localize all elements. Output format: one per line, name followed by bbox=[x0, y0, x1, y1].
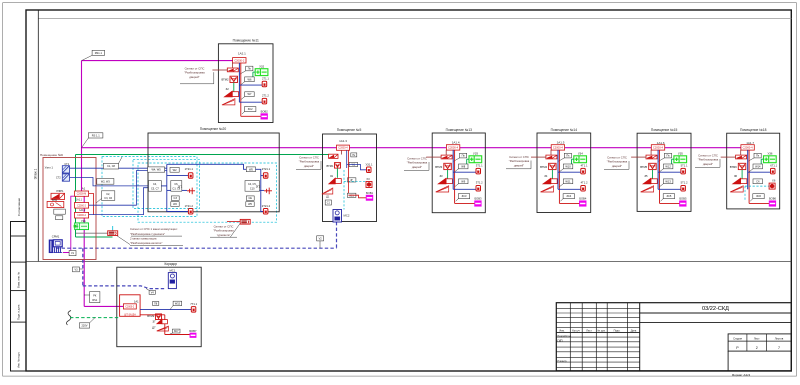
svg-text:ВТМ3: ВТМ3 bbox=[435, 165, 442, 169]
loop bus Помещение №14 purple bbox=[557, 150, 559, 189]
svg-text:RS 1.1: RS 1.1 bbox=[92, 133, 100, 137]
tag V3 on LAN drop bbox=[73, 267, 80, 272]
power green dashed 220V line bbox=[70, 317, 120, 319]
wire stubs under 1А1.4 bbox=[445, 150, 447, 155]
wire tag ЗС6 bbox=[753, 194, 764, 199]
loop wire to 4Т1.1 bbox=[558, 171, 581, 173]
power wire to БОВ6 bbox=[749, 202, 769, 204]
sounder Д3 bbox=[436, 186, 449, 192]
svg-text:С2000-4: С2000-4 bbox=[448, 145, 459, 149]
tag V4 on LAN drop bbox=[149, 290, 155, 294]
wire tag W6 bbox=[245, 77, 255, 82]
network cyan dashed zone B bbox=[138, 163, 277, 222]
svg-text:С3, С6: С3, С6 bbox=[104, 197, 112, 200]
svg-text:W6: W6 bbox=[248, 77, 252, 81]
card reader ВТМ3 reader bbox=[441, 155, 452, 159]
loop wire to 4Т1.2 bbox=[558, 188, 581, 190]
room block Помещение №5 bbox=[323, 134, 377, 222]
svg-text:1А1.1: 1А1.1 bbox=[76, 199, 83, 202]
loop bus room20 left bbox=[166, 164, 168, 211]
wire green sound bus vertical from UK1 bbox=[75, 155, 77, 223]
svg-text:ЗС1: ЗС1 bbox=[349, 194, 354, 197]
svg-text:С2000-2: С2000-2 bbox=[234, 58, 245, 62]
green wire to unit УЗ6 bbox=[761, 158, 763, 160]
svg-text:Сб: Сб bbox=[756, 179, 760, 183]
controller 1А1.1 С2000-2 bbox=[75, 203, 89, 209]
svg-text:Инв. № подл.: Инв. № подл. bbox=[17, 352, 21, 368]
svg-text:С2000-2: С2000-2 bbox=[125, 306, 135, 308]
controller 1А1 box bbox=[120, 295, 141, 317]
network cyan link MS2 to lamp Х3 bbox=[344, 180, 366, 182]
wire stubs under 1А1.6 bbox=[650, 150, 652, 155]
wire А1 to turnstile group 2 bbox=[89, 188, 149, 215]
signal wire from SPS into Помещение №18 bbox=[721, 156, 736, 158]
tag W5 lower bbox=[246, 202, 254, 207]
wire tag ЗС1 bbox=[347, 193, 356, 197]
wire tag ЗГ bbox=[347, 178, 356, 182]
svg-text:W12: W12 bbox=[665, 164, 671, 168]
wire to gate ЗГ1 bbox=[161, 185, 167, 187]
card reader ВТМ5 reader bbox=[646, 155, 657, 159]
network switch МС2 bbox=[333, 210, 342, 223]
green wire to sounders З3 bbox=[447, 170, 449, 179]
wire green sound bus horizontal bbox=[76, 154, 329, 156]
svg-text:1А1.6: 1А1.6 bbox=[657, 141, 665, 145]
svg-text:УЗ6: УЗ6 bbox=[768, 151, 773, 155]
svg-text:С1, С8: С1, С8 bbox=[107, 165, 115, 168]
sounder Д1 bbox=[322, 188, 333, 194]
svg-text:ЗГ1: ЗГ1 bbox=[178, 184, 183, 188]
LAN blue dashed drop from MS2 bbox=[336, 222, 338, 248]
svg-text:W13: W13 bbox=[665, 179, 671, 183]
wire loop СТ1 to turnstile bbox=[70, 167, 167, 169]
wire tag W9 bbox=[459, 179, 469, 184]
svg-text:дверей": дверей" bbox=[304, 164, 314, 168]
loop bus Помещение №18 purple bbox=[747, 150, 749, 189]
tag Pb Помещение №18 bbox=[753, 179, 763, 184]
svg-text:дверей": дверей" bbox=[412, 165, 422, 169]
svg-text:УЗ3: УЗ3 bbox=[473, 151, 478, 155]
svg-text:2Т1.2: 2Т1.2 bbox=[262, 93, 269, 97]
tag СЕ bbox=[246, 196, 254, 200]
svg-text:Х3: Х3 bbox=[366, 177, 370, 181]
wire RS-485 magenta main horizontal bus bbox=[82, 147, 754, 149]
turnstile actuator room20 bottom bbox=[227, 221, 240, 223]
left stamp column boxes bbox=[11, 222, 27, 372]
svg-text:ГИП: ГИП bbox=[558, 340, 563, 343]
svg-text:7Т1.1: 7Т1.1 bbox=[190, 302, 197, 306]
wire green to turnstile actuator bbox=[75, 230, 77, 237]
card reader ВТМ2 reader bbox=[227, 68, 238, 72]
svg-text:С2000-4: С2000-4 bbox=[653, 145, 664, 149]
tag С4 С5 С10 bbox=[245, 181, 260, 192]
svg-text:RS1.1: RS1.1 bbox=[95, 51, 103, 55]
power wire to БОВ7 bbox=[165, 334, 190, 336]
wire 1А1 to contact bbox=[140, 309, 191, 311]
svg-text:СРМ1: СРМ1 bbox=[52, 235, 60, 239]
svg-text:С2000-4: С2000-4 bbox=[743, 145, 754, 149]
frame left strip line bbox=[37, 10, 39, 262]
svg-text:БОВ4: БОВ4 bbox=[579, 197, 587, 201]
svg-text:Д7: Д7 bbox=[152, 325, 156, 329]
svg-text:ЗС2: ЗС2 bbox=[248, 107, 253, 111]
loop wire to 5Т1.2 bbox=[658, 188, 681, 190]
room block Коридор bbox=[117, 267, 201, 347]
wire stubs under 1А1.5 bbox=[550, 150, 552, 155]
svg-text:ЗС3: ЗС3 bbox=[462, 194, 467, 198]
wire А1 to turnstile group 1 bbox=[89, 171, 167, 206]
svg-text:МС1: МС1 bbox=[170, 269, 176, 273]
svg-text:Изм.: Изм. bbox=[559, 330, 565, 333]
green wire to sounders З4 bbox=[551, 170, 553, 179]
svg-text:Помещение №5: Помещение №5 bbox=[337, 128, 362, 132]
svg-text:№ док.: № док. bbox=[597, 330, 605, 333]
room block Помещение №13 bbox=[432, 133, 485, 213]
svg-text:С5, С7: С5, С7 bbox=[151, 188, 159, 191]
tag RS1.2 on magenta bus corner bbox=[88, 133, 103, 138]
svg-text:ЗС4: ЗС4 bbox=[566, 194, 571, 198]
svg-text:Формат А4х3: Формат А4х3 bbox=[732, 373, 751, 377]
tag RS1.1 on magenta top corner bbox=[92, 50, 105, 55]
network cyan dashed zone C bbox=[133, 160, 200, 209]
title block outline bbox=[556, 303, 791, 371]
svg-text:W11: W11 bbox=[565, 179, 571, 183]
svg-text:ВТМ2: ВТМ2 bbox=[222, 78, 229, 82]
tag С4 С5 С7 bbox=[149, 181, 162, 192]
svg-text:W9: W9 bbox=[461, 179, 465, 183]
svg-text:ЗГ2: ЗГ2 bbox=[256, 184, 261, 188]
exit button ВТМ1 bbox=[335, 163, 341, 169]
svg-text:2Т1.1: 2Т1.1 bbox=[262, 76, 269, 80]
wire RS-485 magenta top branch to room 11 bbox=[82, 60, 234, 62]
loop wire to 5Т1.1 bbox=[658, 171, 681, 173]
svg-text:7: 7 bbox=[778, 346, 780, 350]
svg-text:ШТ-3А15А: ШТ-3А15А bbox=[124, 313, 136, 316]
LAN blue dashed drop to MS1 bbox=[82, 248, 84, 286]
svg-text:дверей": дверей" bbox=[703, 162, 713, 166]
wire tag W8 bbox=[459, 164, 469, 169]
room block Помещение №14 bbox=[537, 133, 591, 213]
svg-text:W7: W7 bbox=[248, 92, 252, 96]
svg-text:Кол.уч: Кол.уч bbox=[572, 330, 580, 333]
svg-text:1А1.7: 1А1.7 bbox=[746, 141, 754, 145]
tag W2 room20 bbox=[170, 167, 179, 172]
svg-text:Взам. инв. №: Взам. инв. № bbox=[17, 272, 21, 288]
svg-text:RS1: RS1 bbox=[92, 299, 97, 302]
svg-text:1А2.1: 1А2.1 bbox=[238, 51, 246, 55]
svg-text:Дата: Дата bbox=[631, 330, 637, 333]
signal wire from SPS into Помещение №11 bbox=[212, 69, 227, 71]
svg-text:дверей": дверей" bbox=[514, 163, 524, 167]
svg-text:БОВ7: БОВ7 bbox=[189, 329, 197, 333]
wire RS-485 magenta vertical trunk upper bbox=[81, 61, 83, 191]
svg-text:дверей": дверей" bbox=[612, 164, 622, 168]
svg-text:ВТМ1: ВТМ1 bbox=[327, 164, 334, 168]
box П1 bbox=[351, 153, 357, 157]
svg-text:6Т1.1: 6Т1.1 bbox=[770, 163, 777, 167]
wire tag W1 bbox=[349, 162, 358, 166]
sounder Д2 bbox=[222, 99, 235, 105]
loop wire to 2Т1.1 bbox=[239, 84, 262, 86]
tag 220V bbox=[79, 323, 89, 328]
svg-text:Помещение №11: Помещение №11 bbox=[233, 39, 259, 43]
tag V1 bbox=[69, 251, 76, 256]
loop bus room20 right bbox=[256, 169, 264, 211]
red power wire room5 bbox=[347, 156, 349, 195]
svg-text:турникета": турникета" bbox=[217, 233, 231, 237]
svg-text:1А1.4: 1А1.4 bbox=[452, 141, 460, 145]
svg-text:3Т1.2: 3Т1.2 bbox=[476, 181, 483, 185]
title block doc number cell bbox=[640, 312, 792, 314]
title block stage cells bbox=[728, 334, 791, 351]
svg-text:ЗС6: ЗС6 bbox=[756, 194, 761, 198]
svg-text:W10: W10 bbox=[565, 164, 571, 168]
green wire to unit УЗ3 bbox=[467, 158, 469, 160]
svg-text:СЗ: СЗ bbox=[174, 197, 178, 200]
svg-text:3Т1.1: 3Т1.1 bbox=[476, 163, 483, 167]
svg-text:03/22-СКД: 03/22-СКД bbox=[702, 306, 729, 312]
svg-text:ВТМ4: ВТМ4 bbox=[540, 165, 547, 169]
wire stubs under 1А1.7 bbox=[740, 150, 742, 155]
svg-text:Подп.: Подп. bbox=[614, 330, 621, 333]
wire RS-232 magenta to workstation bbox=[63, 196, 75, 252]
svg-text:W4, W5: W4, W5 bbox=[151, 168, 161, 172]
power 220V squiggle bbox=[66, 311, 71, 326]
svg-text:1А1: 1А1 bbox=[134, 299, 139, 303]
wire tag ЗС2 bbox=[245, 107, 256, 112]
svg-text:Н.контр.: Н.контр. bbox=[558, 360, 568, 363]
loop wire to 3Т1.2 bbox=[453, 188, 476, 190]
tag С6 С3 С9 bbox=[171, 181, 182, 192]
svg-text:Помещение №6: Помещение №6 bbox=[40, 153, 63, 157]
signal wire from SPS into Помещение №13 bbox=[426, 156, 441, 158]
svg-text:Подп. и дата: Подп. и дата bbox=[17, 304, 21, 320]
svg-text:БОВ1: БОВ1 bbox=[366, 191, 374, 195]
svg-text:БОВ5: БОВ5 bbox=[679, 197, 687, 201]
network cyan stub to actuator bbox=[112, 226, 114, 231]
svg-text:С4,: С4, bbox=[153, 183, 157, 186]
svg-text:ВТМ6: ВТМ6 bbox=[730, 165, 737, 169]
wire tag W12 bbox=[663, 164, 673, 169]
card reader ВТМ4 reader bbox=[546, 155, 557, 159]
turnstile actuator gate left bbox=[108, 231, 118, 236]
svg-text:СТ2: СТ2 bbox=[56, 176, 61, 180]
wire across room20 to right group bbox=[167, 164, 247, 169]
LAN blue dashed trunk horizontal bbox=[56, 247, 337, 249]
svg-text:А1: А1 bbox=[82, 187, 86, 191]
svg-text:W8: W8 bbox=[461, 164, 465, 168]
sounder Д5 bbox=[641, 186, 654, 192]
svg-text:РФР1: РФР1 bbox=[56, 189, 64, 193]
tag V2 on LAN trunk bbox=[317, 236, 324, 241]
loop bus Помещение №15 purple bbox=[657, 150, 659, 189]
svg-text:Помещение №14: Помещение №14 bbox=[551, 128, 578, 132]
wire tag W10 bbox=[563, 164, 573, 169]
tag С2 С3 С6 bbox=[102, 191, 115, 201]
svg-text:З2: З2 bbox=[226, 87, 230, 91]
power wire Помещение №14 red bbox=[558, 150, 560, 204]
svg-text:БОВ3: БОВ3 bbox=[474, 197, 482, 201]
svg-text:2: 2 bbox=[756, 346, 758, 350]
red wire corridor down bbox=[140, 314, 165, 316]
svg-text:1Т21.2: 1Т21.2 bbox=[185, 204, 194, 208]
wire tag ЗС3 bbox=[458, 194, 469, 199]
tag Pk Помещение №18 bbox=[754, 153, 761, 158]
svg-text:Листов: Листов bbox=[775, 336, 784, 340]
title block left grid bbox=[569, 303, 571, 371]
green wire to sounder З1 bbox=[336, 168, 338, 178]
svg-text:МС2: МС2 bbox=[344, 214, 350, 218]
svg-text:"Разблокировка турникета": "Разблокировка турникета" bbox=[130, 232, 165, 236]
svg-text:W15: W15 bbox=[175, 302, 181, 305]
card reader ВТМ1 reader bbox=[329, 154, 338, 158]
svg-text:ВТМ5: ВТМ5 bbox=[640, 165, 647, 169]
svg-text:W5: W5 bbox=[249, 167, 253, 171]
svg-text:Помещение №18: Помещение №18 bbox=[740, 128, 767, 132]
power wire 12V from БП1 bbox=[89, 194, 94, 215]
svg-text:Коридор: Коридор bbox=[165, 262, 178, 266]
svg-text:Разработал: Разработал bbox=[558, 335, 572, 338]
svg-text:С2000-2: С2000-2 bbox=[77, 205, 87, 207]
tag Pk Помещение №15 bbox=[664, 153, 671, 158]
room block Помещение №11 bbox=[218, 44, 273, 123]
controller С2000-2 corridor bbox=[123, 304, 136, 309]
svg-text:2 канал коммутации:: 2 канал коммутации: bbox=[130, 236, 157, 240]
power wire to БОВ4 bbox=[559, 202, 579, 204]
svg-text:2Т21.1: 2Т21.1 bbox=[262, 167, 271, 171]
box П8 bbox=[153, 302, 159, 306]
svg-text:Помещение №20: Помещение №20 bbox=[200, 127, 227, 131]
loop wire to 2Т1.2 bbox=[239, 101, 262, 103]
svg-text:W2: W2 bbox=[173, 168, 177, 172]
controller 1А1.2 С2000-2 bbox=[75, 212, 89, 218]
wire tag ЗС7 bbox=[172, 329, 180, 333]
tag W5 right bbox=[246, 167, 255, 172]
tag W2 W3 bbox=[97, 179, 114, 185]
tag W15 bbox=[173, 301, 182, 305]
tag М2 bbox=[171, 202, 179, 207]
svg-text:Х6: Х6 bbox=[772, 179, 776, 183]
tag RK RS1 on magenta drop bbox=[90, 292, 100, 303]
wire tag W14 bbox=[753, 164, 763, 169]
svg-text:З7: З7 bbox=[152, 320, 156, 324]
svg-text:С2000-4: С2000-4 bbox=[338, 147, 348, 150]
power wire to БОВ5 bbox=[660, 202, 680, 204]
green wire to unit УЗ2 bbox=[253, 71, 255, 73]
svg-text:С10: С10 bbox=[250, 188, 255, 191]
room block Помещение №6 bbox=[43, 158, 96, 260]
tag Pk Помещение №13 bbox=[460, 153, 467, 158]
loop bus Помещение №11 purple bbox=[238, 63, 240, 102]
signal wire from SPS into Помещение №14 bbox=[531, 156, 546, 158]
sounder Д6 bbox=[730, 186, 743, 192]
svg-text:4Т1.2: 4Т1.2 bbox=[581, 181, 588, 185]
wire to gate ЗГ2 bbox=[260, 189, 265, 191]
sounder Д4 bbox=[541, 186, 554, 192]
wire RS-485 magenta vertical trunk lower bbox=[83, 197, 85, 307]
loop wire to 3Т1.1 bbox=[453, 171, 476, 173]
svg-text:БОВ2: БОВ2 bbox=[261, 109, 269, 113]
svg-text:220V: 220V bbox=[81, 323, 87, 327]
floor zone separator line bbox=[26, 261, 791, 263]
svg-text:Сигнал от СПС 1 канал коммутац: Сигнал от СПС 1 канал коммутации: bbox=[130, 227, 178, 231]
wire stubs under 1А2.1 bbox=[231, 63, 233, 68]
svg-text:W2: W2 bbox=[173, 203, 177, 206]
network cyan link to lamp Х6 bbox=[745, 185, 769, 187]
green wire to sounders З5 bbox=[652, 170, 654, 179]
svg-text:Этаж 1: Этаж 1 bbox=[34, 169, 38, 180]
svg-text:4Т1.1: 4Т1.1 bbox=[581, 163, 588, 167]
green wire to sounders З6 bbox=[741, 170, 743, 179]
wire RS-485 magenta branch to corridor bbox=[84, 305, 123, 307]
svg-text:"Разблокировка калитки": "Разблокировка калитки" bbox=[130, 241, 162, 245]
svg-text:Лист: Лист bbox=[754, 336, 760, 340]
green wire to unit УЗ4 bbox=[572, 158, 574, 160]
box ИБ1 bbox=[54, 209, 66, 214]
power wire Помещение №11 red bbox=[240, 63, 242, 117]
svg-text:УЗ2: УЗ2 bbox=[259, 64, 264, 68]
svg-text:С2000-2: С2000-2 bbox=[77, 215, 87, 217]
svg-text:1А1.3: 1А1.3 bbox=[339, 139, 347, 143]
power wire Помещение №13 red bbox=[454, 150, 456, 204]
box small bbox=[56, 216, 63, 220]
svg-text:1А1.5: 1А1.5 bbox=[557, 141, 565, 145]
svg-text:УК1: УК1 bbox=[81, 219, 86, 223]
svg-text:дверей": дверей" bbox=[189, 75, 199, 79]
svg-text:С2000-4: С2000-4 bbox=[553, 145, 564, 149]
wire stubs under 1А1.3 bbox=[341, 150, 343, 154]
svg-text:СЕ: СЕ bbox=[248, 197, 252, 200]
frame inner top line bbox=[38, 18, 791, 20]
svg-text:С2,: С2, bbox=[106, 193, 110, 196]
box С1 bbox=[325, 200, 331, 205]
green wire to unit УЗ5 bbox=[672, 158, 674, 160]
svg-text:5Т1.2: 5Т1.2 bbox=[681, 181, 688, 185]
svg-text:1Т21.1: 1Т21.1 bbox=[185, 167, 194, 171]
wire loop СТ2 to turnstile bbox=[70, 178, 149, 186]
svg-text:УЗ4: УЗ4 bbox=[578, 151, 583, 155]
svg-text:Лист: Лист bbox=[586, 330, 592, 333]
svg-text:Помещение №13: Помещение №13 bbox=[446, 128, 473, 132]
room block Помещение №20 bbox=[148, 133, 279, 212]
wire tag W13 bbox=[663, 179, 673, 184]
wire tag W11 bbox=[563, 179, 573, 184]
svg-text:С2000-М: С2000-М bbox=[77, 194, 87, 196]
svg-text:УЗ5: УЗ5 bbox=[678, 151, 683, 155]
svg-text:1А1.2: 1А1.2 bbox=[79, 209, 86, 212]
wire tag ЗС5 bbox=[663, 194, 674, 199]
loop wire to 6Т1.1 bbox=[748, 171, 771, 173]
svg-text:ЗС7: ЗС7 bbox=[174, 330, 179, 333]
svg-text:З5: З5 bbox=[644, 174, 648, 178]
svg-text:З1: З1 bbox=[330, 174, 334, 178]
svg-text:З4: З4 bbox=[544, 174, 548, 178]
svg-text:Узел 1: Узел 1 bbox=[45, 165, 54, 169]
tag Pk Помещение №11 bbox=[246, 66, 253, 71]
signal wire from SPS into Помещение №15 bbox=[631, 156, 646, 158]
room block Помещение №18 bbox=[727, 133, 780, 209]
power wire to БОВ3 bbox=[455, 202, 475, 204]
svg-text:2Т21.2: 2Т21.2 bbox=[262, 204, 271, 208]
svg-text:РК: РК bbox=[93, 294, 97, 297]
svg-text:УЗ1.1: УЗ1.1 bbox=[365, 163, 373, 167]
svg-text:5Т1.1: 5Т1.1 bbox=[681, 163, 688, 167]
wires into left group bbox=[147, 185, 150, 187]
svg-text:Стадия: Стадия bbox=[733, 336, 742, 340]
svg-text:З3: З3 bbox=[439, 174, 443, 178]
wire tag W7 bbox=[245, 92, 255, 97]
svg-text:W14: W14 bbox=[755, 164, 761, 168]
